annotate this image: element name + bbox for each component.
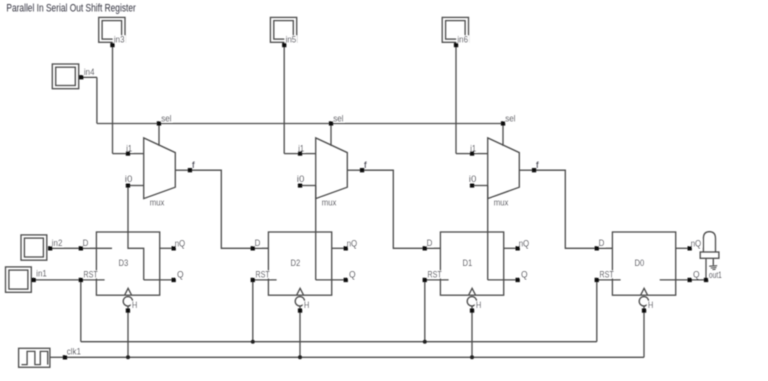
- svg-text:RST: RST: [599, 270, 614, 281]
- svg-text:i0: i0: [469, 174, 477, 185]
- svg-text:nQ: nQ: [175, 238, 186, 249]
- svg-text:i1: i1: [470, 144, 476, 155]
- svg-text:i1: i1: [298, 144, 304, 155]
- svg-text:Q: Q: [693, 270, 700, 281]
- svg-text:sel: sel: [505, 114, 515, 125]
- svg-text:clk1: clk1: [67, 346, 81, 357]
- svg-text:RST: RST: [83, 270, 98, 281]
- svg-text:D: D: [255, 238, 261, 249]
- svg-text:D: D: [599, 238, 605, 249]
- svg-text:H: H: [476, 300, 481, 310]
- svg-text:i1: i1: [126, 144, 132, 155]
- svg-text:H: H: [132, 300, 137, 310]
- svg-text:f: f: [364, 160, 367, 171]
- svg-text:Q: Q: [521, 270, 528, 281]
- svg-text:in5: in5: [286, 34, 297, 45]
- svg-text:in2: in2: [52, 238, 63, 249]
- svg-text:mux: mux: [494, 197, 509, 208]
- svg-text:D3: D3: [119, 258, 129, 269]
- svg-text:D: D: [83, 238, 89, 249]
- svg-text:RST: RST: [255, 270, 270, 281]
- svg-text:f: f: [536, 160, 539, 171]
- svg-text:i0: i0: [297, 174, 305, 185]
- svg-text:Q: Q: [177, 270, 184, 281]
- svg-text:H: H: [304, 300, 309, 310]
- svg-text:D1: D1: [463, 258, 473, 269]
- svg-text:D: D: [427, 238, 433, 249]
- svg-text:RST: RST: [427, 270, 442, 281]
- svg-text:nQ: nQ: [691, 238, 702, 249]
- svg-text:i0: i0: [125, 174, 133, 185]
- svg-text:mux: mux: [150, 197, 165, 208]
- svg-text:in6: in6: [457, 34, 468, 45]
- svg-text:Q: Q: [349, 270, 356, 281]
- svg-text:out1: out1: [709, 270, 722, 281]
- svg-text:in4: in4: [84, 67, 95, 78]
- svg-text:nQ: nQ: [347, 238, 358, 249]
- svg-text:sel: sel: [161, 114, 171, 125]
- svg-text:sel: sel: [333, 114, 343, 125]
- svg-text:in3: in3: [114, 34, 125, 45]
- svg-text:mux: mux: [322, 197, 337, 208]
- svg-text:f: f: [192, 160, 195, 171]
- svg-text:H: H: [648, 300, 653, 310]
- svg-text:Parallel In Serial Out Shift R: Parallel In Serial Out Shift Register: [6, 2, 136, 14]
- svg-text:in1: in1: [36, 269, 47, 280]
- svg-text:D0: D0: [635, 258, 645, 269]
- svg-text:D2: D2: [291, 258, 301, 269]
- svg-text:nQ: nQ: [519, 238, 530, 249]
